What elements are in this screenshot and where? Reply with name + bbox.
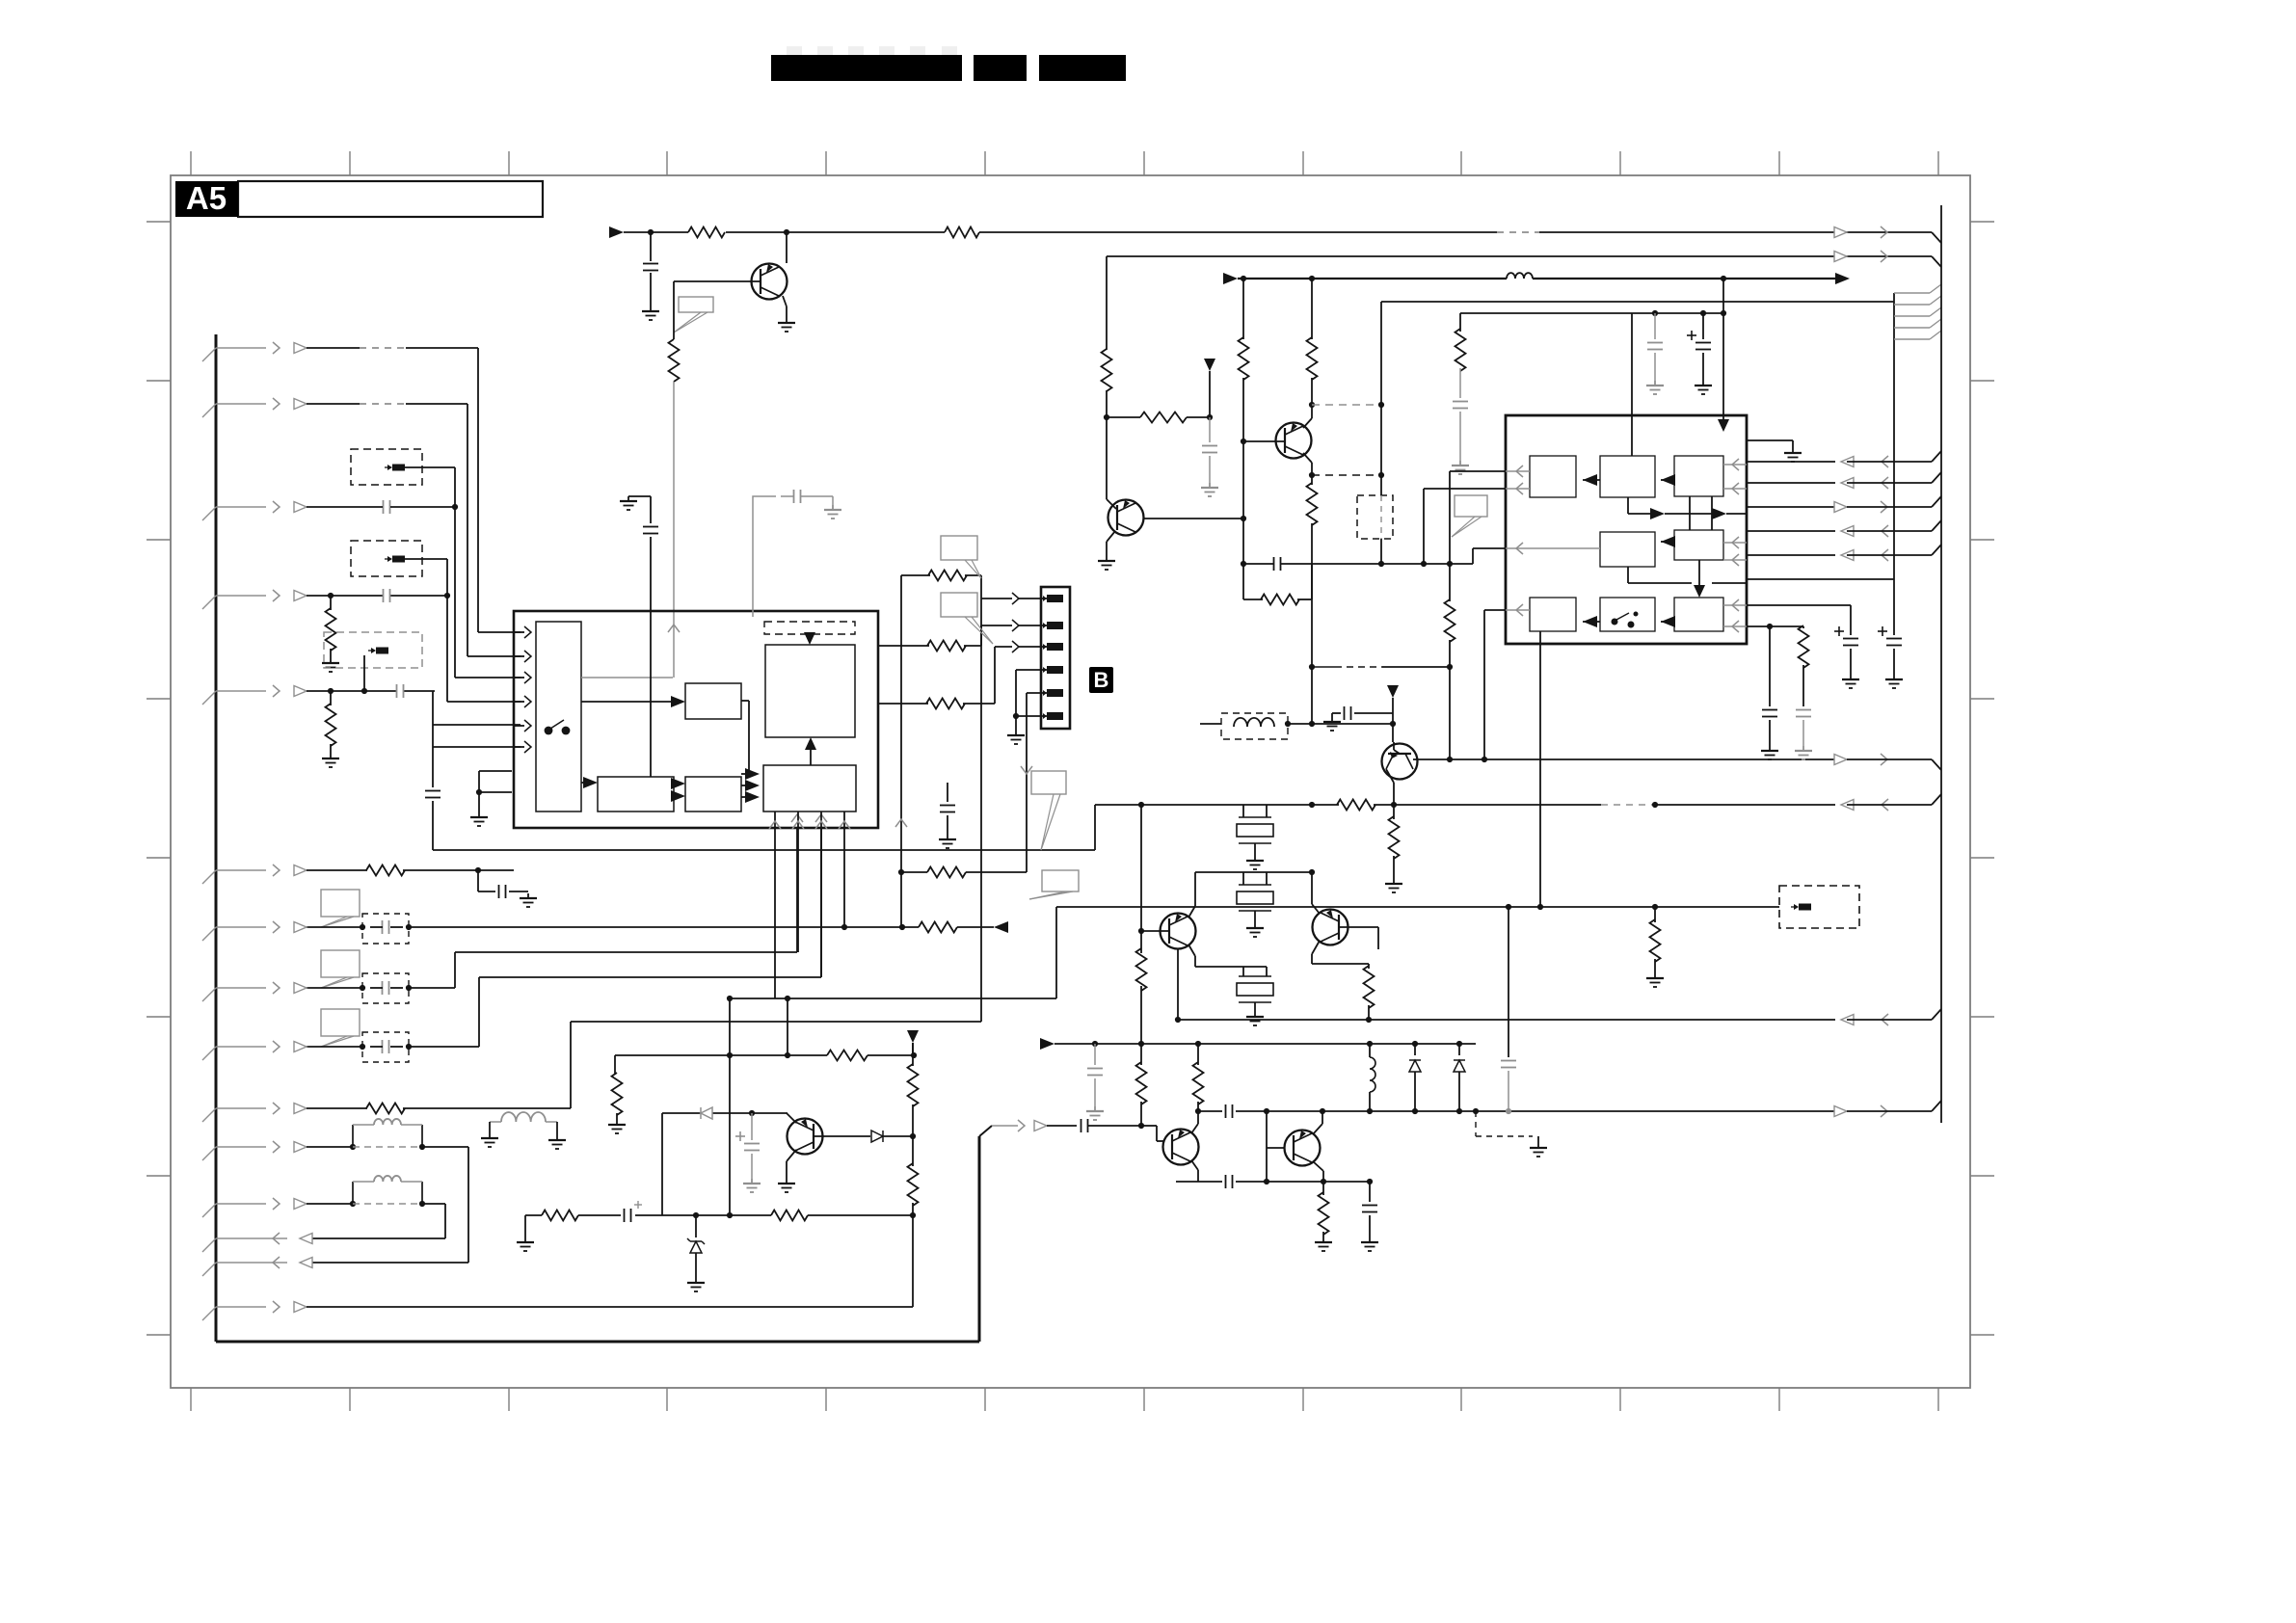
capacitor C-rc <box>1243 557 1312 571</box>
ground L-mid a <box>481 1133 498 1147</box>
wire pd to buf <box>741 701 749 774</box>
input row 9 arrows <box>202 1041 307 1060</box>
top supply wire <box>624 229 1932 235</box>
wire Q7 emitter <box>1313 1161 1323 1182</box>
wire U2 port489 <box>1450 470 1506 472</box>
wire y1153 to bus <box>1847 1101 1941 1111</box>
U2 block MR <box>1674 530 1723 560</box>
option box dashed <box>1779 886 1859 928</box>
ground C-vdd2 <box>1695 381 1712 394</box>
U2 block BL <box>1530 598 1576 631</box>
capacitor C-1261 <box>625 1201 643 1222</box>
ground row5 <box>322 754 339 767</box>
wire v687 <box>661 1113 663 1215</box>
transistor Q5 <box>788 1119 823 1155</box>
capacitor C-u1a <box>643 527 658 778</box>
wire TM-TL <box>1583 474 1600 486</box>
option link box 3 <box>324 632 422 668</box>
wire Q3 bias <box>1138 805 1144 934</box>
wire row5 drop <box>432 691 434 725</box>
wire MR-BR col <box>1699 560 1747 583</box>
wire Q2 collector <box>1303 418 1312 428</box>
ground Q7e <box>1315 1237 1332 1251</box>
arrowheads y835 <box>1841 799 1888 811</box>
wire Q2 base <box>1243 440 1285 442</box>
input row 7 arrows <box>202 921 307 941</box>
input row 2 arrows <box>202 398 307 417</box>
resistor R-j1 <box>901 571 981 581</box>
wire MM tap <box>1628 567 1705 598</box>
diode D-mute2 <box>871 1131 883 1142</box>
wire net4 into box <box>1380 475 1382 564</box>
wire box2 out <box>405 559 447 596</box>
wire Q1 emitter <box>783 296 787 318</box>
resistor R-mute2 <box>908 1136 919 1307</box>
capacitor C-u2r a <box>1762 626 1777 746</box>
dashed link b <box>1312 472 1384 478</box>
wire row11 <box>307 1144 468 1150</box>
ground C-vt <box>1452 461 1469 474</box>
wire U2 port569 <box>1473 548 1506 564</box>
supply arrow y1083 <box>1040 1038 1055 1050</box>
supply arrow net3 end <box>1835 273 1850 284</box>
transistor Q2a <box>1108 500 1144 536</box>
capacitor C-top1 <box>643 232 658 306</box>
transistor Q8 <box>1382 744 1418 780</box>
wire row12 return <box>307 1204 445 1238</box>
capacitor C-q7 <box>1362 1182 1377 1237</box>
wire net4 bracket <box>1893 293 1895 579</box>
wire net2 <box>1107 255 1932 257</box>
wire y585 <box>1312 561 1473 567</box>
supply arrow top wire <box>609 226 624 238</box>
input row 4 arrows <box>202 590 307 609</box>
delay line DL1 <box>353 1119 422 1147</box>
resistor R-q2a <box>1239 279 1249 444</box>
resistor R-vt <box>1455 313 1466 398</box>
transistor Q4 <box>1313 910 1348 945</box>
wire v1445 <box>1392 698 1394 742</box>
zener D-z1 <box>687 1215 705 1278</box>
capacitor C-vt <box>1453 402 1468 462</box>
U2 block MM <box>1600 532 1655 567</box>
wire TR-TM <box>1661 474 1675 486</box>
ground C-dec1 <box>1086 1106 1104 1120</box>
resistor R-q1 <box>669 339 680 382</box>
wire row775 tap <box>433 725 521 747</box>
flag callout row 8 <box>321 950 360 988</box>
ground U2 stub <box>1784 448 1802 462</box>
capacitor C-u2r el2 <box>1878 626 1902 675</box>
wire 1565 drop <box>1501 907 1516 1114</box>
transistor Q6 <box>1163 1130 1199 1165</box>
choke L-net3 <box>1507 273 1533 279</box>
wire Q5 collector <box>787 1150 796 1179</box>
wire Q3 emitter <box>1188 945 1267 967</box>
wire Q2a base <box>1107 417 1116 509</box>
ground C-n2 <box>1201 483 1218 496</box>
label B <box>1089 667 1113 693</box>
arrowheads y1153 <box>1834 1105 1887 1117</box>
resistor R-q2b <box>1307 279 1318 418</box>
diode D-r2 <box>1454 1044 1465 1114</box>
wire y692 <box>1309 664 1450 670</box>
wire row5 <box>307 688 435 694</box>
sheet border frame <box>171 175 1970 1388</box>
supply arrow 751 <box>1387 685 1399 698</box>
U1 div block 2 <box>685 777 741 811</box>
transistor Q3 <box>1161 914 1196 949</box>
arrow into U2 <box>1718 419 1729 432</box>
signal rail y835 <box>1095 802 1339 808</box>
arrow bufout to vco <box>805 737 816 765</box>
U1 out buf block <box>763 765 856 811</box>
capacitor C-mute el <box>735 1113 760 1179</box>
ground R-941 <box>1646 973 1664 987</box>
arrow net row7 <box>994 921 1008 933</box>
wire y835 to bus <box>1847 794 1941 805</box>
wire y835 right <box>1374 802 1835 808</box>
ground L-mid b <box>548 1135 566 1149</box>
wire L2 leads <box>1200 721 1396 727</box>
capacitor C-pair top <box>1226 1104 1233 1118</box>
wire cap751 <box>1332 706 1393 720</box>
wire U1 gnd elbow <box>628 496 651 523</box>
ground C-mute <box>743 1179 761 1192</box>
flag callout net905 <box>1029 870 1079 899</box>
diode D-r1 <box>1409 1044 1421 1114</box>
wire row3 drop <box>455 507 521 678</box>
U1 dashed strap <box>764 622 855 634</box>
arrow row9 up <box>815 814 827 822</box>
capacitor C-row5 <box>397 684 404 698</box>
flag callout j-a <box>941 536 981 578</box>
wire Q3e drop <box>1175 948 1181 1023</box>
arrow into IC1 <box>668 625 680 632</box>
right bus wire <box>1940 205 1942 1123</box>
wire net2 to bus <box>1932 256 1941 267</box>
arrowheads top wire right <box>1834 226 1887 238</box>
left bus wire <box>215 334 218 1342</box>
frame tick marks right <box>1970 222 1994 1335</box>
ground C-u2r1 <box>1842 675 1859 688</box>
IC U1 body <box>514 611 878 828</box>
wire U2 port633 <box>1482 610 1506 762</box>
resistor R-row6 <box>307 865 514 876</box>
wire y1153 dashed drop <box>1476 1111 1533 1136</box>
connector glyph in box 2 <box>385 556 405 563</box>
wire diode row <box>662 1110 788 1116</box>
wire v1361 lower <box>1311 564 1313 724</box>
arrowheads y1058 <box>1841 1014 1888 1025</box>
wire row8 staircase <box>455 829 797 988</box>
arrow net j1 <box>895 819 907 827</box>
capacitor C-vdd2 el <box>1687 313 1711 381</box>
input row 13 arrows <box>202 1301 307 1320</box>
capacitor C-row8 <box>370 981 403 995</box>
input row 12 arrows <box>202 1198 307 1217</box>
svg-text:A5: A5 <box>186 180 227 216</box>
input row 5 arrows <box>202 685 307 705</box>
U1 bottom pin 1 <box>769 811 781 998</box>
bus riser wire <box>978 1136 981 1342</box>
wire bus taper <box>979 1126 992 1136</box>
bold supply wire net3b <box>1533 276 1835 281</box>
flag callout net882 <box>1031 771 1066 850</box>
transistor Q2 <box>1276 423 1312 459</box>
U1 div block 1 <box>598 777 674 811</box>
frame tick marks top <box>191 151 1938 175</box>
supply arrow net3 <box>1223 273 1238 284</box>
arrow row8 up <box>791 814 803 822</box>
resistor R-q2e <box>1307 475 1318 564</box>
flag callout Q1 <box>674 297 713 333</box>
wire stub r-mid <box>614 1055 616 1075</box>
ground R-mid <box>608 1120 626 1133</box>
ground C-u2r b <box>1795 746 1812 759</box>
wire y788 to bus <box>1847 759 1941 770</box>
capacitor C-row6 <box>499 885 506 898</box>
capacitor C-row9 <box>370 1040 403 1053</box>
input row 1 arrows <box>202 342 307 361</box>
resistor R-v1504 <box>1445 471 1455 667</box>
wire BR-BM <box>1661 616 1675 627</box>
ground Q5 <box>778 1179 795 1192</box>
U2 block TL <box>1530 456 1576 497</box>
wire U2 row650 <box>1748 624 1803 629</box>
wire U2 row628 <box>1748 605 1851 635</box>
wire Q4 emitter <box>1312 941 1369 969</box>
capacitor C-u2r el1 <box>1834 626 1858 675</box>
U1 vco block <box>765 645 855 737</box>
wire Q7 collector <box>1313 1111 1322 1134</box>
output row arrows y1310 <box>202 1257 312 1276</box>
bottom bus wire <box>216 1341 979 1344</box>
net row7 extension <box>841 922 994 933</box>
wire mux to div1 <box>581 777 598 788</box>
wire Q8 collector <box>1413 664 1453 762</box>
wire to Q6 base <box>1141 1126 1163 1141</box>
wire Q6 emitter <box>1176 1160 1198 1182</box>
wire TR-MR col <box>1690 496 1712 530</box>
wire Q1 base drop <box>673 281 675 339</box>
capacitor C-pair in <box>1081 1119 1145 1132</box>
input row 6 arrows <box>202 865 307 884</box>
ground dashed <box>1530 1136 1547 1157</box>
ground Q2a <box>1098 556 1115 570</box>
wire net4 <box>1381 302 1894 475</box>
wire vdd 325 <box>1460 310 1726 316</box>
wire y1226 link <box>1198 1179 1373 1184</box>
inductor L2 <box>1234 718 1274 727</box>
wire row1 <box>307 347 478 349</box>
U2 block BM <box>1600 598 1655 631</box>
output row arrows y1285 <box>202 1233 312 1252</box>
ground X3 <box>1246 1012 1264 1025</box>
crystal X1 <box>1237 805 1273 856</box>
ground U1b <box>824 496 841 519</box>
wire y1261 rail <box>525 1211 916 1221</box>
U2 bus rows <box>1748 451 1941 561</box>
wire Q4 collector <box>1312 872 1320 914</box>
U2 switch glyph <box>1612 612 1639 628</box>
wire box1 out <box>405 467 455 507</box>
bold supply wire net3 <box>1238 276 1507 281</box>
wire v757 <box>727 998 733 1218</box>
ground C-vdd1 <box>1646 381 1664 394</box>
input row 10 arrows <box>202 1103 307 1122</box>
wire v817 <box>785 998 790 1058</box>
redacted title bar 1 <box>771 55 962 81</box>
wire U1 gray vdd <box>753 496 776 617</box>
wire Q2 base down <box>1241 441 1246 567</box>
wire pin2 feed <box>981 620 1049 646</box>
resistor R-rc loop <box>1243 564 1312 605</box>
capacitor C-vdd1 <box>1647 313 1663 381</box>
choke L-rail <box>1367 1044 1375 1114</box>
wire row9 <box>307 1044 479 1050</box>
wire row8 <box>307 985 455 991</box>
wire row9 staircase <box>479 829 821 1047</box>
filter box row 7 <box>362 914 409 944</box>
resistor R-mid gnd <box>612 1073 623 1120</box>
wire U2 vdd entry <box>1722 279 1724 421</box>
resistor R-row10 <box>307 1104 571 1114</box>
wire row10 staircase <box>571 599 981 1108</box>
input row 3 arrows <box>202 501 307 520</box>
wire row12 <box>307 1201 445 1207</box>
capacitor C-n2 <box>1202 446 1217 484</box>
wire Q4 base <box>1339 927 1378 949</box>
wire mute chain <box>912 1043 914 1055</box>
wire y1058 to bus <box>1847 1009 1941 1020</box>
wire row4 <box>307 593 450 599</box>
flag callout row 7 <box>321 890 360 927</box>
frame tick marks left <box>147 222 171 1335</box>
ground top1 <box>642 306 659 320</box>
U2 left ports <box>1506 466 1600 616</box>
capacitor C-pair bot <box>1226 1175 1233 1188</box>
wire row6 stub <box>478 870 495 891</box>
net under U1 <box>433 805 1095 850</box>
ground row6 <box>509 891 537 907</box>
redacted title bar 3 <box>1039 55 1126 81</box>
bracket stubs <box>1894 284 1941 339</box>
wire Q1 collector <box>786 232 788 263</box>
wire agc top <box>912 1043 914 1056</box>
capacitor C-983 <box>940 783 955 835</box>
wire row1 drop <box>478 348 521 632</box>
wire mux to pd <box>581 696 685 707</box>
connector glyph in box 3 <box>368 648 388 654</box>
IC U2 body <box>1506 415 1747 644</box>
wire top to bus <box>1932 232 1941 243</box>
wire row752 tap <box>433 724 521 726</box>
frame tick marks bottom <box>191 1388 1938 1411</box>
resistor R-mute1 <box>908 1055 919 1139</box>
resistor R-lad1 <box>1136 1044 1147 1126</box>
transistor Q1 <box>752 264 788 300</box>
resistor R-lad2 <box>1193 1044 1204 1114</box>
input row 11 arrows <box>202 1141 307 1160</box>
wire y1095 link <box>615 1051 917 1061</box>
transistor Q7 <box>1285 1131 1321 1166</box>
ground cap751 <box>1323 713 1341 731</box>
crystal X3 <box>1237 967 1273 1012</box>
U1 switch contacts <box>545 720 571 734</box>
flag callout row 9 <box>321 1009 360 1047</box>
arrow pin5 down <box>1021 766 1032 774</box>
wire U2 tm feed <box>1631 313 1633 456</box>
wire row4 drop <box>447 596 521 702</box>
wire agc diode feed <box>661 1111 663 1113</box>
wire pin4 gnd <box>1013 670 1049 719</box>
wire bias row <box>1107 412 1213 423</box>
U1 bottom pin 4 <box>839 811 850 927</box>
wire Q3 base <box>1141 930 1169 932</box>
ground U1 left <box>620 496 637 510</box>
resistor R-top1 <box>688 227 725 238</box>
signal into pair <box>992 1120 1077 1131</box>
wire pin1 feed <box>981 593 1049 604</box>
wire row2 drop <box>467 404 521 656</box>
delay line DL2 <box>353 1176 422 1204</box>
capacitor C-row4 <box>384 589 390 602</box>
wire Q8 base <box>1394 742 1400 754</box>
signal rail y1058 <box>1178 1019 1835 1021</box>
ground C-q7 <box>1361 1237 1378 1251</box>
arrowheads y788 <box>1834 754 1887 765</box>
capacitor C-row7 <box>370 920 403 934</box>
wire Q6 collector <box>1191 1111 1198 1133</box>
dashed box L1 <box>1357 495 1393 539</box>
resistor R-osc3 <box>1136 931 1147 1044</box>
supply rail y1083 <box>1055 1041 1476 1047</box>
ground y1261 left <box>517 1215 534 1251</box>
U1 bottom pin 2 <box>792 811 804 952</box>
connector J1 <box>1041 587 1070 729</box>
connector glyph in box 1 <box>385 465 405 471</box>
U1 mux input arrows <box>514 626 531 753</box>
capacitor C-u2r b <box>1796 710 1811 747</box>
crystal X2 <box>1237 872 1273 923</box>
choke L-mid <box>490 1112 557 1135</box>
wire R-q1 to IC <box>673 382 675 678</box>
ground R-q8e <box>1385 879 1402 892</box>
wire TM tap <box>1628 497 1747 519</box>
resistor R-u2r <box>1799 625 1809 706</box>
U2 gnd stub <box>1748 440 1793 448</box>
wire row13 <box>307 1306 913 1308</box>
diode D-mute1 <box>701 1107 712 1119</box>
wire Q8 emitter <box>1386 769 1394 805</box>
ground U1 loop <box>470 812 488 826</box>
wire bottom rail to Q9 <box>978 1341 980 1343</box>
wire Q1 base <box>674 280 761 282</box>
wire R-j1 elbow <box>901 575 981 927</box>
wire div1 to div2 <box>671 778 685 802</box>
ground C-u2r a <box>1761 746 1778 759</box>
resistor R-n2 <box>1102 349 1112 420</box>
wire row11 return <box>307 1147 468 1263</box>
ground C-983 <box>939 835 956 848</box>
resistor R-j2 <box>878 641 981 652</box>
wire div2 to buf <box>741 768 760 803</box>
input row 8 arrows <box>202 982 307 1001</box>
filter box row 9 <box>362 1032 409 1062</box>
wire Q5 emitter <box>787 1113 796 1123</box>
wire row7 <box>307 924 844 930</box>
